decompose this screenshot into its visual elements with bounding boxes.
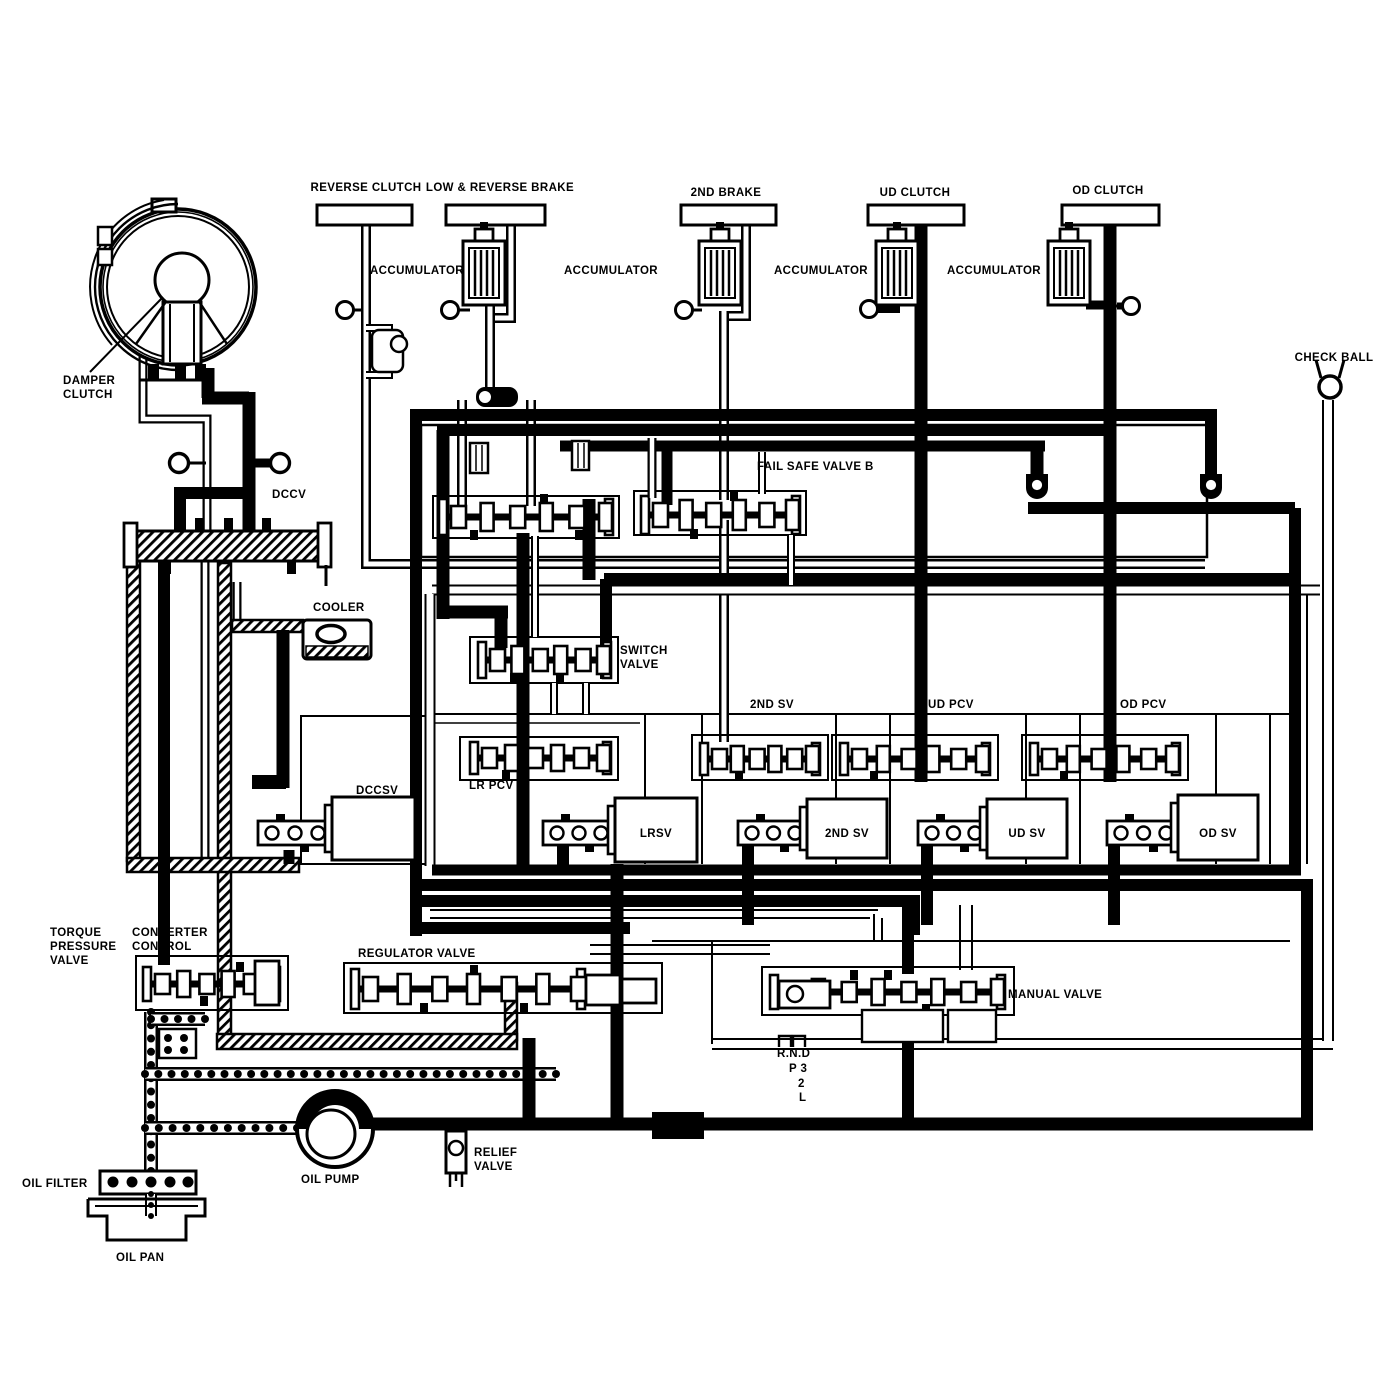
svg-text:CONVERTER: CONVERTER bbox=[132, 927, 208, 939]
svg-text:OD PCV: OD PCV bbox=[1120, 699, 1167, 711]
svg-text:ACCUMULATOR: ACCUMULATOR bbox=[947, 265, 1041, 277]
svg-text:OIL PAN: OIL PAN bbox=[116, 1252, 164, 1264]
svg-text:P 3: P 3 bbox=[789, 1063, 807, 1075]
svg-text:LOW & REVERSE BRAKE: LOW & REVERSE BRAKE bbox=[426, 182, 574, 194]
svg-text:RELIEF: RELIEF bbox=[474, 1147, 517, 1159]
svg-text:OD SV: OD SV bbox=[1199, 828, 1237, 840]
svg-text:PRESSURE: PRESSURE bbox=[50, 941, 116, 953]
svg-text:DCCSV: DCCSV bbox=[356, 785, 398, 797]
svg-text:VALVE: VALVE bbox=[474, 1161, 513, 1173]
svg-text:UD SV: UD SV bbox=[1008, 828, 1045, 840]
svg-text:REVERSE CLUTCH: REVERSE CLUTCH bbox=[310, 182, 421, 194]
svg-text:UD CLUTCH: UD CLUTCH bbox=[880, 187, 951, 199]
svg-text:LR PCV: LR PCV bbox=[469, 780, 514, 792]
svg-text:OIL PUMP: OIL PUMP bbox=[301, 1174, 360, 1186]
svg-text:OD CLUTCH: OD CLUTCH bbox=[1072, 185, 1143, 197]
svg-text:2ND SV: 2ND SV bbox=[825, 828, 869, 840]
svg-text:SWITCH: SWITCH bbox=[620, 645, 668, 657]
svg-text:L: L bbox=[799, 1092, 806, 1104]
svg-text:VALVE: VALVE bbox=[620, 659, 659, 671]
svg-text:DCCV: DCCV bbox=[272, 489, 306, 501]
svg-text:2: 2 bbox=[798, 1078, 805, 1090]
svg-text:R.N.D: R.N.D bbox=[777, 1048, 810, 1060]
svg-text:DAMPER: DAMPER bbox=[63, 375, 116, 387]
svg-text:ACCUMULATOR: ACCUMULATOR bbox=[774, 265, 868, 277]
svg-text:OIL FILTER: OIL FILTER bbox=[22, 1178, 88, 1190]
svg-text:MANUAL VALVE: MANUAL VALVE bbox=[1008, 989, 1102, 1001]
svg-text:LRSV: LRSV bbox=[640, 828, 672, 840]
svg-text:ACCUMULATOR: ACCUMULATOR bbox=[564, 265, 658, 277]
svg-text:VALVE: VALVE bbox=[50, 955, 89, 967]
svg-text:2ND SV: 2ND SV bbox=[750, 699, 794, 711]
svg-text:COOLER: COOLER bbox=[313, 602, 365, 614]
svg-text:ACCUMULATOR: ACCUMULATOR bbox=[370, 265, 464, 277]
svg-text:CONTROL: CONTROL bbox=[132, 941, 192, 953]
svg-text:UD PCV: UD PCV bbox=[928, 699, 974, 711]
svg-text:CLUTCH: CLUTCH bbox=[63, 389, 113, 401]
svg-text:CHECK BALL: CHECK BALL bbox=[1295, 352, 1374, 364]
svg-text:2ND BRAKE: 2ND BRAKE bbox=[691, 187, 762, 199]
svg-text:FAIL SAFE VALVE B: FAIL SAFE VALVE B bbox=[757, 461, 874, 473]
svg-text:TORQUE: TORQUE bbox=[50, 927, 101, 939]
svg-text:REGULATOR VALVE: REGULATOR VALVE bbox=[358, 948, 476, 960]
